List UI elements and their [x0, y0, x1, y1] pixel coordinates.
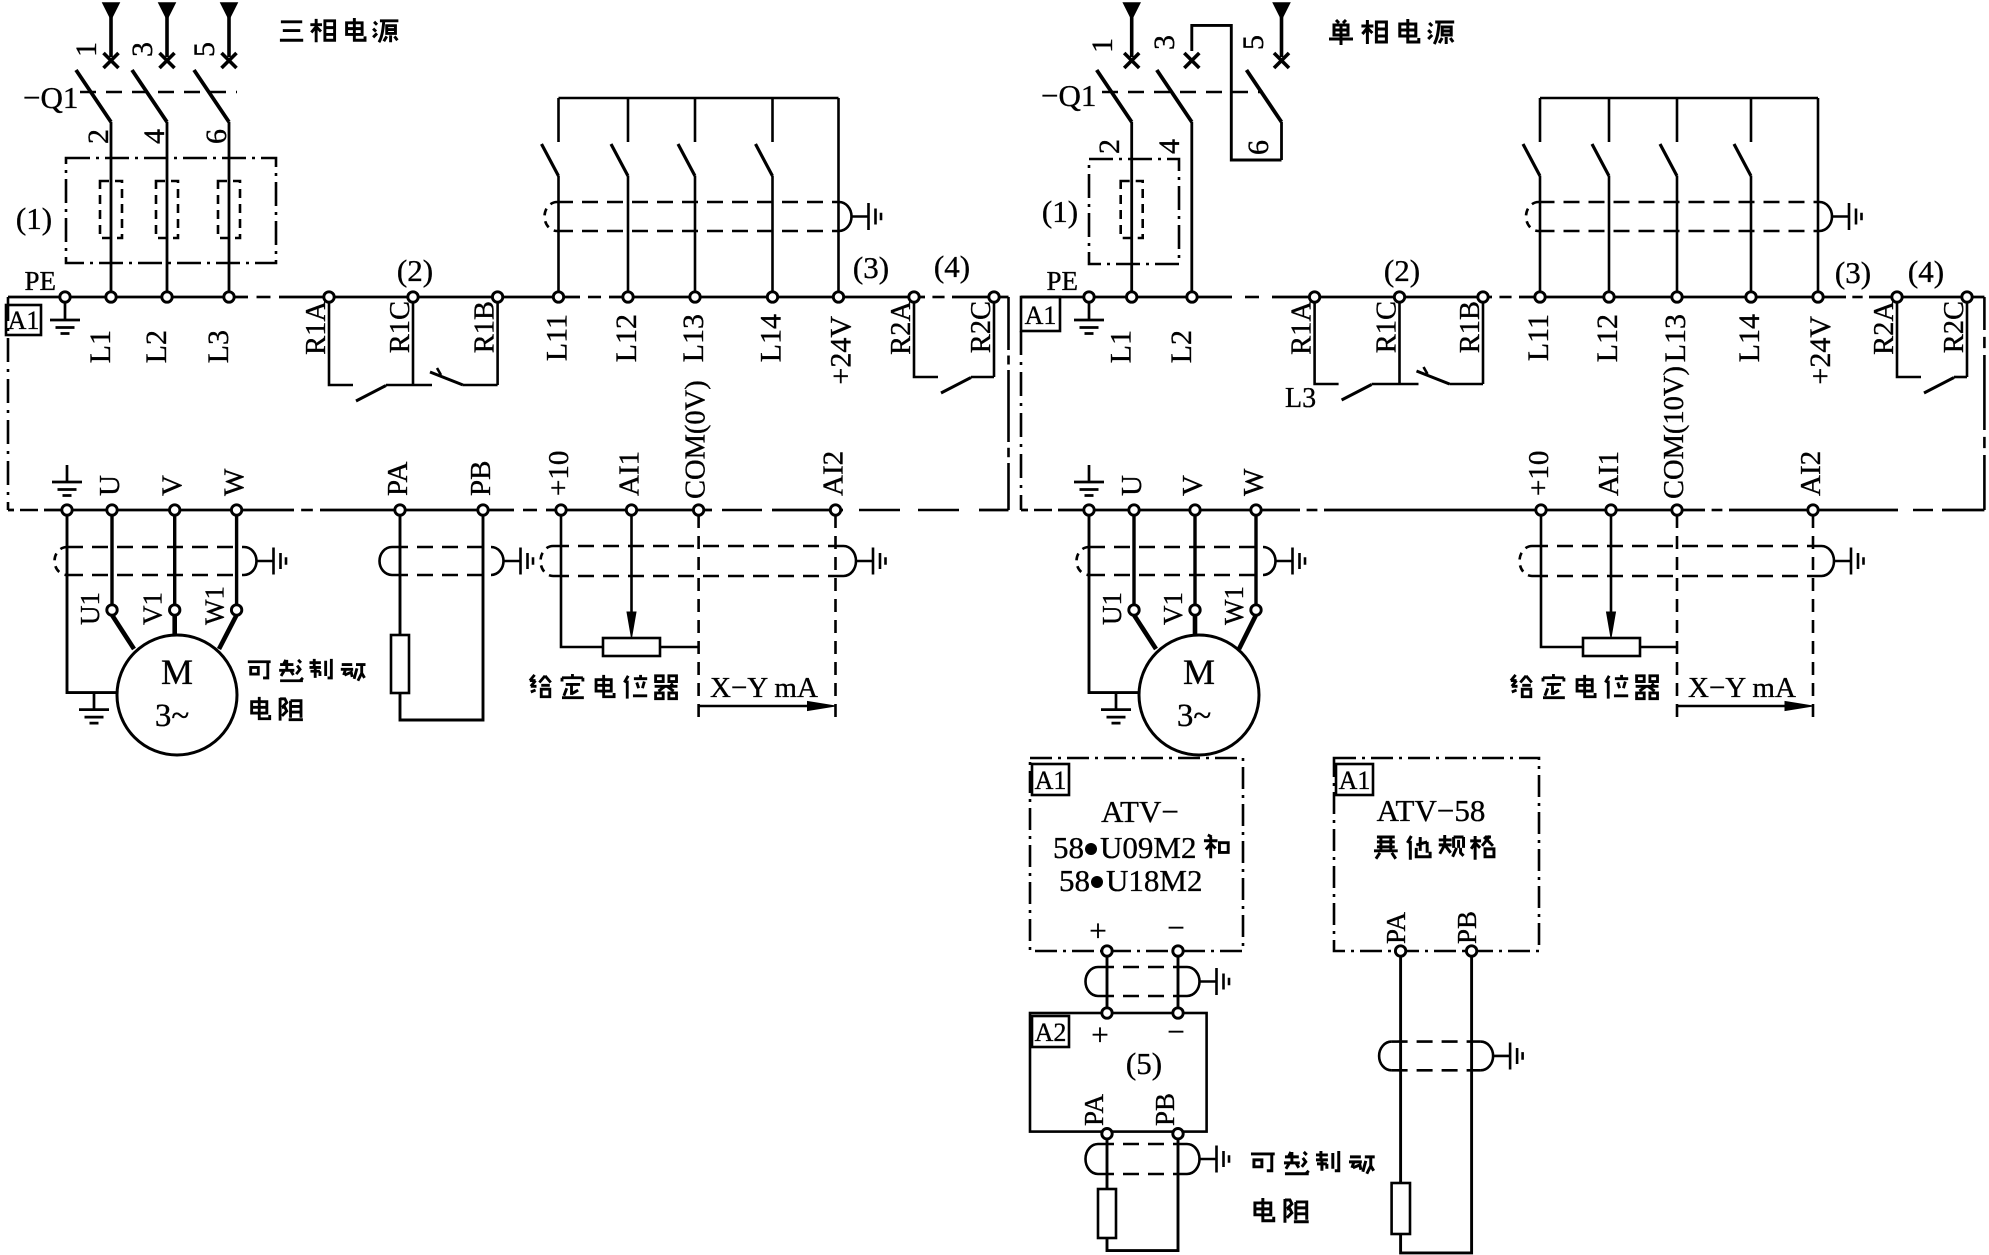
logic input switch L12	[611, 98, 628, 292]
svg-text:(2): (2)	[397, 253, 433, 288]
terminal V	[170, 505, 180, 515]
drive A1 right: left edge (dash-dot)	[1020, 331, 1023, 510]
chain-line break after AI2	[843, 506, 979, 514]
svg-text:M: M	[1183, 652, 1215, 692]
terminal PA of other block	[1395, 946, 1405, 956]
chain-line break near bottom-left corner	[14, 506, 44, 514]
jumper wire from terminal 6 to terminal 3	[1192, 25, 1282, 160]
terminal L11 right	[1535, 292, 1545, 302]
terminal AI2	[830, 505, 840, 515]
title: three-phase supply 三相电源	[280, 18, 398, 42]
dashed net AI2 sense right	[1812, 515, 1815, 722]
svg-text:A1: A1	[1035, 766, 1067, 795]
terminal R1A	[324, 292, 334, 302]
svg-text:L14: L14	[1733, 314, 1766, 362]
braking resistor R (other)	[1392, 1183, 1410, 1234]
motor lead V1 to motor	[172, 615, 177, 636]
terminal V right	[1190, 505, 1200, 515]
svg-text:+10: +10	[543, 451, 575, 496]
terminal R1A right	[1309, 292, 1319, 302]
svg-text:(4): (4)	[1908, 254, 1944, 289]
svg-text:V1: V1	[138, 592, 168, 625]
terminal L12 right	[1604, 292, 1614, 302]
terminal PB	[478, 505, 488, 515]
svg-text:L1: L1	[84, 330, 117, 363]
svg-text:V: V	[157, 475, 189, 496]
dashed net COM(0V) sense	[697, 515, 700, 722]
DC bus cable shield with earth	[1098, 966, 1187, 969]
svg-text:4: 4	[1153, 139, 1186, 154]
svg-text:ATV−: ATV−	[1101, 794, 1179, 829]
terminal - of A1 block	[1173, 946, 1183, 956]
brake resistor wire PA	[1106, 1139, 1109, 1189]
svg-text:(3): (3)	[1835, 255, 1871, 290]
terminal R2A right	[1892, 292, 1902, 302]
terminal R2C right	[1962, 292, 1972, 302]
terminal COM(10V) right	[1672, 505, 1682, 515]
svg-text:−: −	[1167, 1014, 1184, 1049]
breaker Q1 pole 3-4: x-mark, blade, wire down to L2	[1157, 53, 1200, 292]
terminal W	[231, 505, 241, 515]
motor phase wire W	[235, 515, 238, 604]
brake wire PA other	[1399, 956, 1402, 1183]
chain-line break between L3 and R1A	[248, 293, 279, 301]
svg-text:PA: PA	[382, 462, 414, 496]
svg-text:U09M2: U09M2	[1100, 830, 1196, 865]
brake resistor return loop to PB	[1107, 1139, 1178, 1251]
svg-text:R1A: R1A	[1287, 301, 1318, 355]
chain-line break between R1B and L11	[1492, 293, 1519, 301]
label optional braking resistor 可选制动电阻 bottom	[1251, 1151, 1375, 1223]
motor M 3-phase	[117, 635, 237, 755]
svg-text:R2C: R2C	[1939, 301, 1970, 353]
svg-text:V: V	[1177, 475, 1209, 496]
terminal R1C right	[1394, 292, 1404, 302]
svg-text:2: 2	[82, 129, 115, 144]
braking resistor R	[391, 635, 409, 693]
terminal R2A	[909, 292, 919, 302]
svg-text:+24V: +24V	[1804, 316, 1837, 385]
motor lead W1 to motor	[219, 615, 237, 649]
svg-text:W: W	[219, 468, 251, 496]
chain-line break after W	[294, 506, 320, 514]
breaker Q1 pole 5-6 with supply arrow, output 6	[1247, 3, 1290, 160]
terminal R2C	[989, 292, 999, 302]
drive A1 left edge (dash-dot)	[7, 297, 10, 510]
fuse F1 right	[1121, 181, 1143, 238]
current range dimension arrow X-Y mA	[699, 705, 810, 708]
terminal L3	[224, 292, 234, 302]
chain-line break between COM and AI2	[712, 506, 772, 514]
block text 其他规格	[1374, 835, 1494, 860]
svg-text:L3: L3	[1285, 383, 1316, 414]
optional fuse box (1) right, dash-dot outline	[1089, 159, 1179, 264]
relay 2 right: R2A wire and NO blade to R2C	[1897, 302, 1921, 377]
control cable shield right with earth	[1539, 201, 1820, 204]
relay 2 contact group: R2A wire and NO blade to R2C	[914, 302, 938, 377]
analog cable shield right with earth	[1532, 545, 1822, 548]
svg-text:−Q1: −Q1	[1041, 78, 1096, 113]
label box A1 on U09M2 block	[1032, 764, 1069, 795]
terminal U	[107, 505, 117, 515]
motor lead U1 right	[1134, 615, 1156, 649]
svg-text:A1: A1	[1025, 301, 1057, 330]
braking resistor cable shield with earth	[392, 546, 491, 549]
svg-text:3: 3	[126, 42, 159, 57]
earth symbol on motor frame wire right	[1101, 693, 1131, 724]
svg-text:PB: PB	[1150, 1093, 1180, 1126]
cable junction V1 right	[1190, 605, 1200, 615]
svg-text:6: 6	[200, 129, 233, 144]
svg-text:5: 5	[188, 42, 221, 57]
chain-line break after PB	[514, 506, 546, 514]
terminal +24V	[833, 292, 843, 302]
svg-text:COM(0V): COM(0V)	[681, 380, 712, 499]
svg-text:−: −	[1167, 910, 1184, 945]
svg-text:X−Y mA: X−Y mA	[710, 672, 818, 704]
terminal +10	[556, 505, 566, 515]
svg-text:R2C: R2C	[966, 301, 997, 353]
drive A1 top terminal rail (right)	[1021, 296, 1984, 299]
label box A2	[1032, 1016, 1069, 1047]
brake resistor return loop to PB other	[1401, 956, 1472, 1253]
fuse F1	[100, 181, 122, 238]
terminal L14 right	[1746, 292, 1756, 302]
chain-line break after AI2 right	[1898, 506, 1942, 514]
terminal PB of A2	[1173, 1129, 1183, 1139]
terminal +10 right	[1536, 505, 1546, 515]
svg-text:U: U	[94, 475, 126, 496]
svg-text:PA: PA	[1079, 1093, 1109, 1126]
terminal PA of A2	[1102, 1129, 1112, 1139]
logic input switch group top rail right	[1540, 97, 1818, 100]
drive unit label box A1 (left)	[6, 305, 41, 335]
svg-text:(5): (5)	[1126, 1046, 1162, 1081]
svg-text:U1: U1	[75, 592, 105, 625]
svg-text:+24V: +24V	[825, 316, 858, 385]
motor lead V1 right	[1193, 615, 1198, 636]
title: single-phase supply 单相电源	[1329, 19, 1454, 45]
terminal AI1 right	[1606, 505, 1616, 515]
cable junction U1	[107, 605, 117, 615]
svg-text:R2A: R2A	[1869, 301, 1900, 355]
svg-text:X−Y mA: X−Y mA	[1688, 672, 1796, 704]
svg-text:58: 58	[1053, 830, 1084, 865]
terminal R1B	[492, 292, 502, 302]
svg-text:+: +	[1091, 1017, 1108, 1052]
relay 1 right NC contact R1C to R1B	[1400, 383, 1419, 386]
logic switch L14 right	[1734, 98, 1751, 292]
svg-text:W1: W1	[1219, 586, 1249, 625]
svg-text:L3: L3	[202, 330, 235, 363]
svg-text:PA: PA	[1381, 911, 1411, 944]
motor phase wire V right	[1193, 515, 1196, 604]
svg-text:L14: L14	[755, 314, 788, 362]
dashed net COM sense right	[1676, 515, 1679, 722]
DC bus wire - to A2	[1177, 956, 1180, 1008]
svg-text:L2: L2	[140, 330, 173, 363]
motor ground wire right	[1089, 515, 1139, 693]
chain-line break near bottom-left corner right	[1028, 506, 1058, 514]
terminal AI2 right	[1808, 505, 1818, 515]
relay NC contact R1C to R1B	[413, 384, 432, 387]
svg-text:PE: PE	[24, 266, 56, 296]
earth symbol above ground terminal	[52, 465, 82, 496]
chain-line break between +24V and R2A	[1846, 293, 1869, 301]
cable junction W1	[231, 605, 241, 615]
svg-text:PB: PB	[465, 461, 497, 496]
dashed net AI2 sense	[834, 515, 837, 722]
braking resistor R (A2)	[1098, 1189, 1116, 1238]
svg-text:A1: A1	[8, 306, 40, 335]
reference potentiometer wiring right	[1541, 515, 1583, 647]
relay 1 contact group: R1A wire and NO blade to R1C	[329, 302, 353, 385]
motor phase wire W right	[1254, 515, 1257, 604]
svg-text:(2): (2)	[1384, 253, 1420, 288]
logic input switch L14	[756, 98, 773, 292]
svg-text:R1C: R1C	[385, 301, 416, 353]
motor lead W1 right	[1239, 615, 1256, 649]
terminal - of A2	[1173, 1008, 1183, 1018]
svg-text:−Q1: −Q1	[23, 80, 78, 115]
fuse F2	[156, 181, 178, 238]
chain-line break after W right	[1300, 506, 1324, 514]
svg-text:L12: L12	[1591, 314, 1624, 362]
svg-text:W: W	[1238, 468, 1270, 496]
fuse F3	[218, 181, 240, 238]
svg-text:COM(10V): COM(10V)	[1659, 366, 1690, 499]
drive A1 bottom terminal rail (right)	[1021, 509, 1984, 512]
svg-text:+10: +10	[1523, 451, 1555, 496]
svg-text:AI1: AI1	[614, 451, 646, 496]
terminal PE	[60, 292, 70, 302]
svg-text:2: 2	[1093, 139, 1126, 154]
drive A1 right edge	[1007, 297, 1010, 510]
ground terminal (motor PE)	[62, 505, 72, 515]
svg-text:A1: A1	[1339, 766, 1371, 795]
svg-text:ATV−58: ATV−58	[1377, 793, 1486, 828]
braking resistor wire PA	[399, 515, 402, 635]
motor phase wire U right	[1132, 515, 1135, 604]
+24V feed wire right	[1817, 98, 1820, 292]
svg-text:L11: L11	[541, 314, 574, 361]
svg-text:AI2: AI2	[1795, 451, 1827, 496]
terminal L2	[162, 292, 172, 302]
svg-text:(1): (1)	[16, 201, 52, 236]
motor cable shield (dashed) with earth	[67, 546, 244, 549]
label box A1 on other-ratings block	[1336, 764, 1373, 795]
svg-text:R1B: R1B	[1455, 301, 1486, 353]
optional fuse assembly box (1), dash-dot outline	[66, 158, 276, 263]
protective earth symbol under PE terminal	[50, 303, 80, 334]
cable junction W1 right	[1251, 605, 1261, 615]
drive unit label box A1 (right)	[1021, 297, 1060, 331]
cable junction U1 right	[1129, 605, 1139, 615]
motor ground wire from PE terminal to motor frame	[67, 515, 117, 693]
chain-line break between COM and AI2 right	[1705, 506, 1729, 514]
svg-text:(3): (3)	[853, 250, 889, 285]
motor cable shield right with earth	[1089, 546, 1263, 549]
svg-text:(1): (1)	[1042, 194, 1078, 229]
svg-text:R2A: R2A	[886, 301, 917, 355]
svg-text:W1: W1	[200, 586, 230, 625]
terminal PE right	[1084, 292, 1094, 302]
terminal R1C	[408, 292, 418, 302]
terminal +24V right	[1813, 292, 1823, 302]
terminal AI1	[626, 505, 636, 515]
svg-text:1: 1	[70, 42, 103, 57]
label optional braking resistor 可选制动电阻	[248, 659, 366, 721]
relay 1 right: R1A wire and NO blade to R1C	[1315, 302, 1339, 384]
svg-text:(4): (4)	[934, 249, 970, 284]
svg-text:3~: 3~	[1177, 698, 1211, 734]
+24V feed wire from rail	[837, 98, 840, 292]
svg-text:L13: L13	[1659, 314, 1692, 362]
logic input switch L13	[678, 98, 695, 292]
control cable shield (dashed) with earth	[557, 201, 839, 204]
svg-text:PE: PE	[1046, 266, 1078, 296]
chain-line break between L11 and L12	[580, 293, 609, 301]
DC bus wire + to A2	[1106, 956, 1109, 1008]
terminal L2 right	[1187, 292, 1197, 302]
breaker Q1 mechanical linkage (dashed)	[1102, 91, 1263, 93]
svg-text:L12: L12	[610, 314, 643, 362]
terminal + of A2	[1102, 1008, 1112, 1018]
svg-text:5: 5	[1237, 35, 1270, 50]
terminal L13 right	[1672, 292, 1682, 302]
label reference potentiometer 给定电位器	[530, 674, 678, 699]
logic switch L12 right	[1592, 98, 1609, 292]
terminal W right	[1251, 505, 1261, 515]
hanzi and 和	[1204, 835, 1228, 858]
ground terminal right	[1084, 505, 1094, 515]
svg-text:R1C: R1C	[1372, 301, 1403, 353]
logic switch L11 right	[1523, 98, 1540, 292]
svg-text:AI2: AI2	[818, 451, 850, 496]
svg-text:3~: 3~	[155, 698, 189, 734]
breaker Q1 pole 1-2 with supply arrow, terminal 1	[76, 3, 119, 292]
analog cable shield with earth	[553, 545, 844, 548]
svg-text:4: 4	[138, 129, 171, 144]
terminal PA	[395, 505, 405, 515]
breaker Q1 pole 3-4 with supply arrow, terminal 3	[132, 3, 175, 292]
svg-text:L2: L2	[1165, 330, 1198, 363]
svg-text:L1: L1	[1105, 330, 1138, 363]
brake option unit A2 box	[1030, 1013, 1207, 1132]
terminal L14	[767, 292, 777, 302]
terminal + of A1 block	[1102, 946, 1112, 956]
drive A1 bottom terminal rail (left)	[8, 509, 1009, 512]
svg-text:V1: V1	[1158, 592, 1188, 625]
svg-text:M: M	[161, 652, 193, 692]
block A1 ATV-58 U09M2/U18M2 dash-dot outline	[1030, 758, 1243, 951]
logic switch L13 right	[1660, 98, 1677, 292]
terminal L12	[623, 292, 633, 302]
terminal PB of other block	[1466, 946, 1476, 956]
svg-text:A2: A2	[1035, 1018, 1067, 1047]
motor phase wire U	[110, 515, 113, 604]
drive A1 top terminal rail (left)	[8, 296, 1009, 299]
earth symbol on motor frame wire	[79, 693, 109, 724]
svg-text:+: +	[1089, 913, 1106, 948]
earth symbol above ground terminal right	[1074, 465, 1104, 496]
brake resistor cable shield with earth	[1098, 1143, 1187, 1146]
protective earth symbol under PE right	[1074, 303, 1104, 334]
svg-text:3: 3	[1148, 35, 1181, 50]
motor phase wire V	[173, 515, 176, 604]
terminal R1B right	[1478, 292, 1488, 302]
breaker Q1 mechanical linkage (dashed)	[80, 91, 237, 93]
svg-text:58: 58	[1059, 863, 1090, 898]
svg-text:6: 6	[1242, 140, 1275, 155]
terminal L1	[106, 292, 116, 302]
label reference potentiometer right 给定电位器	[1511, 674, 1659, 699]
svg-text:L11: L11	[1522, 314, 1555, 361]
terminal L11	[553, 292, 563, 302]
braking resistor return loop to PB	[400, 515, 483, 720]
svg-text:R1A: R1A	[301, 301, 332, 355]
terminal U right	[1129, 505, 1139, 515]
chain-line break between R2A and R2C	[925, 293, 952, 301]
svg-text:L13: L13	[677, 314, 710, 362]
motor M 3-phase right	[1139, 635, 1259, 755]
current range dimension arrow X-Y mA right	[1677, 705, 1787, 708]
brake cable shield other with earth	[1392, 1040, 1481, 1043]
terminal L13	[690, 292, 700, 302]
logic input switch group top rail	[559, 97, 839, 100]
breaker Q1 pole 5-6 with supply arrow, terminal 5	[194, 3, 237, 292]
drive A1 right: right edge	[1983, 297, 1986, 510]
svg-text:1: 1	[1086, 38, 1119, 53]
terminal COM(0V)	[693, 505, 703, 515]
breaker Q1 pole 1-2 with supply arrow	[1097, 3, 1140, 292]
svg-text:U1: U1	[1097, 592, 1127, 625]
svg-text:U18M2: U18M2	[1106, 863, 1202, 898]
chain-line break between L2 and R1A	[1232, 293, 1272, 301]
motor lead U1 to motor	[112, 615, 134, 649]
cable junction V1	[170, 605, 180, 615]
logic input switch L11	[542, 98, 559, 292]
svg-text:AI1: AI1	[1593, 451, 1625, 496]
terminal L1 right	[1127, 292, 1137, 302]
svg-text:PB: PB	[1452, 911, 1482, 944]
svg-text:U: U	[1116, 475, 1148, 496]
block A1 ATV-58 other ratings dash-dot outline	[1334, 758, 1539, 951]
reference potentiometer wiring and body	[561, 515, 603, 647]
svg-text:R1B: R1B	[470, 301, 501, 353]
